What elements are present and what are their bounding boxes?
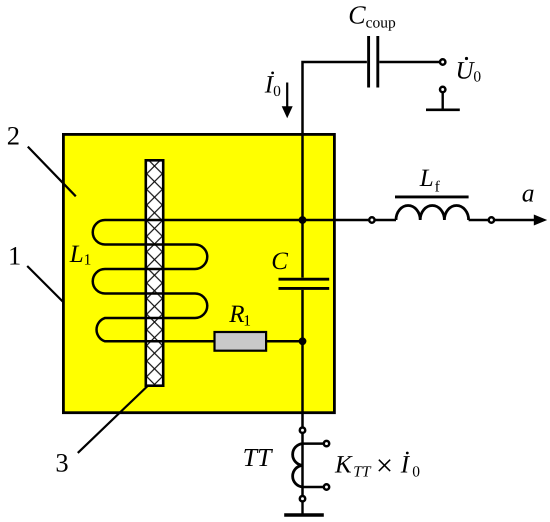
transformer TT coil arcs [293,444,303,487]
core rod 3 (crosshatched) [146,160,163,385]
label Ccoup [348,1,396,32]
filter box (yellow body) [63,134,334,412]
TT secondary stub top [303,441,330,446]
leader line for 3 [78,386,148,453]
wire R1 to junction [266,340,302,343]
terminal (open circle, right of Lf) [489,217,494,222]
terminal below TT (open circle) [300,496,305,501]
svg-text:1: 1 [84,251,92,268]
label Lf [419,165,441,196]
main vertical wire (lower segment) [301,290,304,427]
output arrow to node a [495,215,547,226]
svg-text:1: 1 [8,240,21,270]
label a [522,178,535,207]
svg-text:L: L [419,165,434,192]
wire Ccoup to U0 terminal [379,61,439,64]
terminal U0 (open circle) [440,59,445,64]
svg-text:I: I [400,452,411,479]
svg-text:TT: TT [243,443,273,472]
label I0 [264,72,281,101]
wire Lf to terminal [469,219,489,222]
svg-text:3: 3 [55,448,68,478]
inductor Lf (3 humps) [396,206,469,221]
svg-text:TT: TT [353,464,372,481]
svg-text:0: 0 [473,68,481,85]
callout label 2 [7,121,20,151]
inductor L1 (serpentine coil) [93,220,303,341]
ground (top right) [426,87,460,110]
svg-text:1: 1 [243,313,251,330]
label R1 [228,301,251,330]
resistor R1 [215,332,267,351]
node junction top (dot) [299,216,307,224]
svg-text:a: a [522,178,535,207]
svg-text:C: C [348,1,366,30]
svg-text:f: f [435,179,441,196]
TT secondary stub bottom [303,484,330,489]
current arrow I0 [282,83,293,119]
leader line for 1 [27,266,63,302]
Lf core bar [395,195,469,198]
svg-text:R: R [228,301,244,328]
label C [271,248,288,275]
ground (bottom) [284,502,324,516]
label L1 [69,241,92,268]
terminal (open circle, left of Lf) [369,217,374,222]
node junction bottom (dot) [299,337,307,345]
svg-text:×: × [376,448,393,482]
svg-text:L: L [69,241,84,268]
label KTT x I0 [334,448,420,482]
label U0 [456,57,482,85]
main vertical wire (upper segment with corner to Ccoup) [303,62,367,278]
callout label 3 [55,448,68,478]
svg-text:K: K [334,451,353,478]
svg-text:0: 0 [273,83,281,100]
terminal above TT (open circle) [300,428,305,433]
callout label 1 [8,240,21,270]
transformer TT primary (vertical wire through coil) [301,434,304,496]
wire terminal to Lf [375,219,396,222]
capacitor Ccoup plates [369,36,378,88]
svg-text:C: C [271,248,288,275]
wire junction to Lf [306,219,368,222]
label TT [243,443,273,472]
svg-text:2: 2 [7,121,20,151]
svg-text:0: 0 [412,463,420,480]
capacitor C plates [279,279,330,288]
svg-text:coup: coup [366,14,396,31]
leader line for 2 [28,147,76,197]
